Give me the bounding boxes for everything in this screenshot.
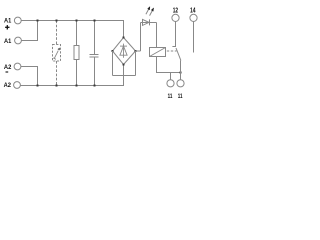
terminal 14 bbox=[190, 14, 197, 21]
resistor R1 top leg bbox=[76, 21, 78, 46]
node resistor top bbox=[76, 20, 78, 22]
svg-text:11: 11 bbox=[168, 93, 173, 100]
wire bridge left vertex down bbox=[112, 51, 114, 76]
wire bridge right to LED anode stub bbox=[136, 50, 141, 52]
terminal A2 (fourth) bbox=[14, 82, 21, 89]
terminal A1 (top, +) bbox=[14, 17, 21, 24]
dashed mechanical link bbox=[167, 50, 177, 52]
node capacitor top bbox=[94, 20, 96, 22]
svg-text:14: 14 bbox=[190, 5, 196, 14]
node bridge left bbox=[112, 50, 114, 52]
svg-text:A1: A1 bbox=[4, 38, 11, 45]
wire A1 second to rail bbox=[21, 21, 37, 41]
node bridge bottom bbox=[123, 64, 125, 66]
LED anode leg bbox=[140, 23, 142, 52]
capacitor C1 plates bbox=[90, 54, 99, 56]
capacitor bottom leg bbox=[94, 57, 96, 85]
terminal 11 right bbox=[177, 80, 184, 87]
svg-text:A2: A2 bbox=[4, 64, 12, 71]
svg-text:11: 11 bbox=[178, 93, 183, 100]
node bridge right bbox=[135, 50, 137, 52]
LED V1 bbox=[141, 19, 157, 25]
node contact common junction bbox=[180, 72, 182, 74]
relay coil K1 bbox=[150, 48, 166, 57]
suppressor arrow symbol bbox=[53, 48, 60, 60]
label - bbox=[6, 71, 9, 73]
wire bridge right vertex down bbox=[135, 51, 137, 76]
svg-text:A2: A2 bbox=[4, 82, 12, 89]
wire top rail from A1 to bridge bbox=[21, 21, 123, 38]
contact 12 leg with end tick bbox=[172, 22, 175, 47]
switch arm bbox=[176, 48, 181, 61]
terminal 12 bbox=[172, 14, 179, 21]
node A2 bridge junction bbox=[37, 85, 39, 87]
resistor bottom leg bbox=[76, 60, 78, 86]
suppressor U1 dashed box bbox=[53, 45, 61, 62]
suppressor bottom leg (dashed) bbox=[56, 61, 58, 86]
node capacitor bottom bbox=[94, 85, 96, 87]
LED cathode leg down to coil bbox=[156, 23, 158, 48]
terminal A1 (second) bbox=[15, 37, 22, 44]
bridge rectifier diamond bbox=[113, 38, 136, 65]
wire under bridge horizontal bbox=[113, 75, 136, 77]
capacitor C1 top leg bbox=[94, 21, 96, 55]
wire coil bottom to contacts common bbox=[157, 57, 181, 73]
svg-text:A1: A1 bbox=[4, 18, 11, 25]
suppressor branch (dashed) top leg bbox=[56, 21, 58, 45]
node bridge top bbox=[123, 37, 125, 39]
wire bottom rail from A2 to bridge bbox=[20, 65, 123, 86]
terminal A2 (third, -) bbox=[14, 63, 21, 70]
terminal 11 left bbox=[167, 80, 174, 87]
wire A2 to bottom rail bbox=[21, 67, 38, 86]
resistor R1 body bbox=[74, 46, 79, 60]
switch common down bbox=[180, 61, 182, 80]
wire left 11 terminal up to bracket bbox=[170, 73, 172, 80]
diode D1 inside bridge bbox=[120, 44, 127, 58]
contact 14 leg bbox=[193, 22, 195, 53]
node A1 bridge junction bbox=[37, 20, 39, 22]
LED light arrows bbox=[146, 7, 154, 16]
node suppressor top bbox=[56, 20, 58, 22]
node suppressor bottom bbox=[56, 85, 58, 87]
svg-text:12: 12 bbox=[173, 5, 178, 14]
node resistor bottom bbox=[76, 85, 78, 87]
label + bbox=[5, 25, 9, 29]
